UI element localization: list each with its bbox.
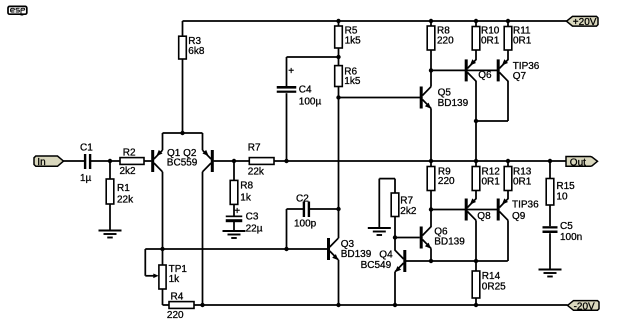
svg-text:100p: 100p (294, 219, 317, 230)
svg-text:R2: R2 (123, 148, 136, 159)
svg-text:+: + (234, 206, 240, 217)
svg-text:10: 10 (556, 192, 568, 203)
svg-text:C1: C1 (80, 143, 93, 154)
svg-text:6k8: 6k8 (188, 46, 205, 57)
svg-text:Q8: Q8 (477, 211, 491, 222)
svg-text:C3: C3 (246, 212, 259, 223)
svg-text:220: 220 (167, 310, 184, 321)
svg-text:BD139: BD139 (341, 249, 372, 260)
svg-text:BD139: BD139 (434, 236, 465, 247)
svg-text:1k: 1k (169, 274, 181, 285)
svg-text:0R1: 0R1 (482, 176, 501, 187)
svg-text:22k: 22k (117, 195, 134, 206)
svg-text:1k5: 1k5 (345, 36, 362, 47)
svg-text:C5: C5 (560, 221, 573, 232)
svg-text:Q6: Q6 (478, 70, 492, 81)
svg-text:22k: 22k (248, 167, 265, 178)
svg-text:0R1: 0R1 (481, 35, 500, 46)
svg-text:2k2: 2k2 (120, 166, 137, 177)
svg-text:100n: 100n (560, 232, 582, 243)
svg-text:0R1: 0R1 (513, 176, 532, 187)
svg-text:Q9: Q9 (512, 211, 526, 222)
svg-text:0R1: 0R1 (513, 35, 532, 46)
svg-text:R8: R8 (240, 181, 253, 192)
svg-text:Out: Out (570, 157, 586, 168)
svg-text:In: In (37, 157, 45, 168)
svg-text:+20V: +20V (573, 17, 597, 28)
svg-text:R15: R15 (556, 181, 575, 192)
svg-text:22µ: 22µ (246, 223, 263, 234)
svg-text:220: 220 (438, 176, 455, 187)
svg-text:R1: R1 (117, 183, 130, 194)
svg-text:Q5: Q5 (438, 88, 452, 99)
svg-text:BD139: BD139 (438, 98, 469, 109)
svg-text:1k5: 1k5 (344, 76, 361, 87)
svg-text:100µ: 100µ (299, 97, 322, 108)
svg-text:Q7: Q7 (513, 71, 527, 82)
svg-text:Q4: Q4 (379, 250, 393, 261)
svg-text:R14: R14 (482, 271, 501, 282)
svg-text:C2: C2 (296, 194, 309, 205)
svg-text:0R25: 0R25 (482, 282, 506, 293)
svg-text:BC549: BC549 (361, 260, 392, 271)
svg-text:1k: 1k (240, 192, 252, 203)
svg-text:-20V: -20V (574, 302, 595, 313)
svg-text:220: 220 (437, 35, 454, 46)
svg-text:2k2: 2k2 (400, 206, 417, 217)
svg-text:C4: C4 (299, 85, 312, 96)
svg-text:+: + (288, 66, 294, 77)
svg-text:1µ: 1µ (80, 173, 92, 184)
svg-text:R4: R4 (171, 292, 184, 303)
svg-text:R7: R7 (400, 196, 413, 207)
svg-text:R7: R7 (248, 142, 261, 153)
svg-text:TIP36: TIP36 (512, 200, 539, 211)
svg-text:BC559: BC559 (167, 158, 198, 169)
